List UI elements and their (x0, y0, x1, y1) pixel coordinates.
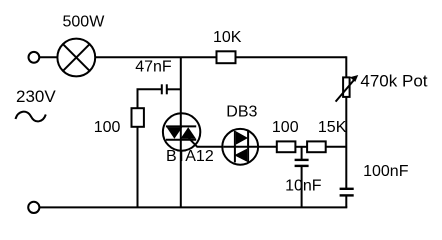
wire diac to R 100 right (258, 146, 277, 148)
wire right vertical: corner to pot top (345, 56, 347, 77)
svg-text:BTA12: BTA12 (166, 148, 214, 165)
wire 15K to right vertical (326, 146, 347, 148)
lamp 500W (57, 39, 95, 77)
svg-text:230V: 230V (16, 87, 56, 106)
AC sine symbol (16, 112, 46, 122)
wire 10nF bottom plate to bottom wire (301, 166, 303, 207)
resistor 100 right (277, 141, 296, 152)
diac DB3 (222, 129, 258, 165)
svg-text:100: 100 (94, 119, 121, 136)
wire junction down to 10nF top plate (301, 147, 303, 160)
wire R 100 bottom to bottom wire (137, 127, 139, 208)
capacitor 47nF (162, 84, 167, 94)
potentiometer 470k (336, 75, 359, 102)
terminal top AC (29, 52, 40, 63)
resistor 10K (217, 51, 236, 63)
resistor 15K (307, 141, 326, 152)
svg-text:500W: 500W (63, 14, 106, 31)
wire 47nF right plate to triac vertical (167, 88, 181, 90)
wire bottom: terminal to bottom-right corner (40, 206, 348, 208)
wire right vertical: pot bottom to 100nF top plate (345, 97, 347, 188)
svg-text:10nF: 10nF (285, 177, 322, 194)
wire R 100 right to 15K (295, 146, 307, 148)
wire top: terminal to lamp (39, 56, 57, 58)
triac BTA12 (163, 113, 200, 150)
wire triac gate to diac (189, 138, 223, 147)
capacitor 10nF (295, 160, 309, 166)
svg-text:DB3: DB3 (226, 103, 257, 120)
capacitor 100nF (340, 189, 354, 196)
svg-text:100: 100 (272, 119, 299, 136)
svg-text:470k Pot: 470k Pot (360, 71, 427, 90)
svg-text:100nF: 100nF (363, 163, 409, 180)
wire triac vertical: top wire through triac to bottom wire (180, 57, 182, 207)
terminal bottom AC (28, 202, 39, 213)
svg-text:10K: 10K (213, 29, 242, 46)
svg-text:47nF: 47nF (135, 58, 172, 75)
wire top: lamp to 10K resistor (95, 56, 216, 58)
wire 47nF left plate to corner and down to R 100 (138, 89, 162, 108)
wire top: 10K resistor to top-right corner (236, 56, 347, 58)
wire right vertical: 100nF bottom plate to bottom wire (345, 196, 347, 208)
resistor 100 left (132, 108, 144, 127)
svg-text:15K: 15K (318, 119, 347, 136)
